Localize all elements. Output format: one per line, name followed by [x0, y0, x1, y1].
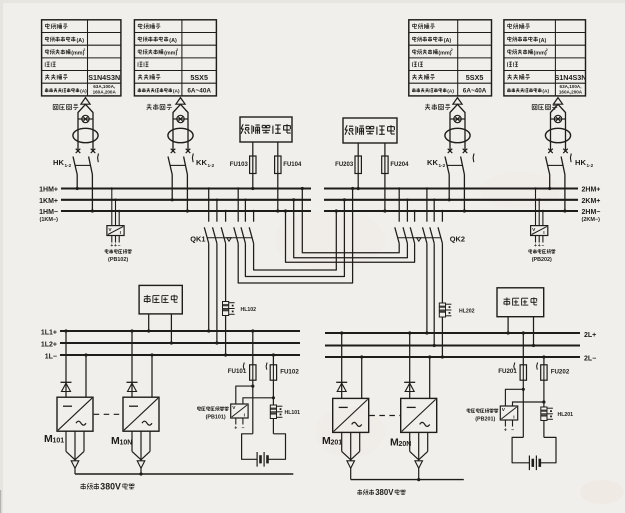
- svg-text:(PB201): (PB201): [475, 417, 495, 423]
- svg-text:201: 201: [331, 440, 343, 447]
- svg-text:(A): (A): [80, 89, 87, 95]
- svg-text:5SX5: 5SX5: [466, 73, 484, 82]
- svg-text:(A): (A): [169, 38, 177, 44]
- svg-text:HL201: HL201: [558, 412, 574, 418]
- svg-text:FU104: FU104: [283, 162, 302, 168]
- svg-text:(PB101): (PB101): [206, 415, 226, 421]
- svg-text:10N: 10N: [120, 440, 133, 447]
- svg-text:101: 101: [53, 438, 65, 445]
- svg-text:1L−: 1L−: [45, 354, 57, 361]
- svg-text:2: 2: [83, 48, 85, 52]
- svg-text:160A,200A: 160A,200A: [559, 90, 583, 95]
- svg-text:1HM−: 1HM−: [39, 209, 58, 216]
- svg-text:2L+: 2L+: [584, 332, 596, 339]
- svg-text:2HM+: 2HM+: [582, 187, 601, 194]
- svg-text:FU203: FU203: [335, 162, 354, 168]
- svg-text:20N: 20N: [399, 441, 412, 448]
- svg-text:HL101: HL101: [285, 410, 301, 416]
- svg-text:FU202: FU202: [551, 369, 570, 376]
- svg-text:2HM−: 2HM−: [582, 209, 601, 216]
- svg-text:2L−: 2L−: [584, 356, 596, 363]
- svg-text:HL102: HL102: [241, 307, 257, 313]
- svg-text:1KM+: 1KM+: [39, 198, 58, 205]
- svg-text:HL202: HL202: [459, 309, 475, 315]
- svg-text:FU204: FU204: [390, 162, 409, 168]
- svg-text:KK: KK: [196, 158, 207, 167]
- svg-text:5SX5: 5SX5: [190, 73, 208, 82]
- svg-text:FU103: FU103: [230, 162, 249, 168]
- svg-text:+: +: [110, 243, 113, 249]
- svg-text:+: +: [538, 243, 541, 249]
- svg-text:FU101: FU101: [228, 368, 247, 375]
- svg-text:6A~40A: 6A~40A: [187, 88, 211, 95]
- svg-text:1-2: 1-2: [208, 163, 215, 168]
- svg-text:−: −: [511, 428, 514, 434]
- svg-text:FU102: FU102: [280, 369, 299, 376]
- svg-text:63A,100A,: 63A,100A,: [560, 84, 582, 89]
- svg-text:1-2: 1-2: [587, 163, 594, 168]
- svg-text:1L1+: 1L1+: [41, 330, 57, 337]
- svg-text:(A): (A): [173, 89, 180, 95]
- svg-text:HK: HK: [53, 158, 64, 167]
- svg-text:−: −: [241, 426, 244, 432]
- svg-text:6A~40A: 6A~40A: [463, 88, 487, 95]
- svg-text:QK1: QK1: [190, 235, 205, 244]
- svg-text:2: 2: [546, 48, 548, 52]
- svg-text:+: +: [114, 243, 117, 249]
- svg-text:+: +: [234, 426, 237, 432]
- svg-text:(A): (A): [77, 38, 85, 44]
- svg-text:1-2: 1-2: [65, 163, 72, 168]
- svg-text:S1N4S3N: S1N4S3N: [555, 73, 587, 82]
- svg-text:(A): (A): [539, 38, 547, 44]
- svg-text:(A): (A): [542, 89, 549, 95]
- svg-text:(A): (A): [447, 89, 454, 95]
- svg-text:(2KM−): (2KM−): [582, 217, 601, 223]
- svg-text:+: +: [534, 243, 537, 249]
- svg-text:2: 2: [451, 48, 453, 52]
- svg-text:FU201: FU201: [498, 368, 517, 375]
- svg-text:(1KM−): (1KM−): [40, 217, 59, 223]
- svg-text:+: +: [504, 428, 507, 434]
- svg-text:QK2: QK2: [450, 235, 465, 244]
- svg-text:380V: 380V: [100, 482, 121, 492]
- svg-text:(PB102): (PB102): [108, 257, 128, 263]
- svg-text:380V: 380V: [375, 488, 394, 497]
- svg-text:2: 2: [176, 48, 178, 52]
- svg-text:(A): (A): [444, 38, 452, 44]
- svg-text:−: −: [118, 243, 121, 249]
- svg-text:(PB202): (PB202): [532, 257, 552, 263]
- svg-text:KK: KK: [427, 158, 438, 167]
- svg-text:−: −: [541, 243, 544, 249]
- svg-text:160A,200A: 160A,200A: [93, 90, 117, 95]
- svg-text:2KM+: 2KM+: [582, 198, 601, 205]
- svg-text:S1N4S3N: S1N4S3N: [88, 73, 120, 82]
- svg-text:HK: HK: [575, 158, 586, 167]
- svg-text:1-2: 1-2: [439, 163, 446, 168]
- svg-text:1HM+: 1HM+: [39, 187, 58, 194]
- svg-text:1L2+: 1L2+: [41, 342, 57, 349]
- svg-text:63A,100A,: 63A,100A,: [93, 84, 115, 89]
